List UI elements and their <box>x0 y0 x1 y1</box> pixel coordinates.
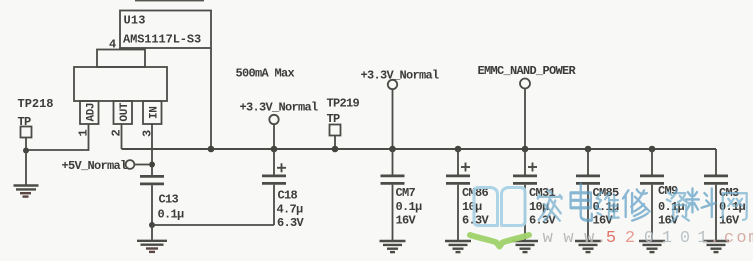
junction rail / CM7 <box>389 146 396 153</box>
wire pin3 IN down to +5V node <box>151 124 153 176</box>
U13 body <box>74 67 167 101</box>
junction rail / C18 / +3.3V <box>271 146 278 153</box>
wire C13 bottom to ground node <box>151 185 153 225</box>
svg-text:c: c <box>724 229 734 248</box>
ground under C13 <box>137 241 167 252</box>
watermark text (hand-drawn CJK strokes) <box>538 184 747 222</box>
capacitor CM9 <box>651 149 653 175</box>
watermark logo: open book <box>474 188 525 226</box>
EMMC_NAND_POWER terminal circle <box>520 79 530 89</box>
junction rail / U13 box edge <box>208 146 215 153</box>
junction rail / CM31 / EMMC <box>522 146 529 153</box>
ground under CM31 <box>512 241 538 252</box>
capacitor CM85 <box>587 149 589 175</box>
svg-text:4.7μ: 4.7μ <box>277 202 304 216</box>
svg-text:2: 2 <box>625 229 635 248</box>
wire CM9 to ground <box>651 185 653 240</box>
svg-text:5: 5 <box>606 229 616 248</box>
junction rail / CM86 <box>455 146 462 153</box>
wire node down to ground <box>25 151 27 185</box>
svg-text:0.1μ: 0.1μ <box>396 200 423 214</box>
+3.3V_Normal terminal circle (right) <box>388 80 397 89</box>
ground under CM7 <box>380 241 406 252</box>
wire TP218 pad to node <box>25 138 27 152</box>
svg-text:16V: 16V <box>658 213 679 227</box>
svg-text:U13: U13 <box>124 14 146 28</box>
capacitor CM31 (polarized) <box>524 149 526 175</box>
wire ground stem below C13 <box>151 225 153 240</box>
CM31 plus mark <box>528 163 537 172</box>
wire CM85 to ground <box>587 185 589 240</box>
junction rail / CM85 <box>585 146 592 153</box>
svg-text:16V: 16V <box>396 213 417 227</box>
svg-text:0: 0 <box>680 229 690 248</box>
capacitor CM7 <box>392 149 394 175</box>
wire +3.3V terminal down to rail <box>392 89 394 149</box>
svg-text:w: w <box>543 229 554 248</box>
svg-text:0.1μ: 0.1μ <box>158 208 185 222</box>
CM86 plus mark <box>461 163 470 172</box>
test point TP219 pad <box>330 125 341 136</box>
watermark url www.520101.com <box>543 229 753 248</box>
capacitor CM86 (polarized) <box>457 149 459 175</box>
svg-text:16V: 16V <box>593 213 614 227</box>
ground under CM9 <box>639 241 665 252</box>
junction TP218/ADJ/ground <box>23 148 29 154</box>
svg-text:0: 0 <box>644 229 654 248</box>
regulator U13 designator box <box>120 11 211 49</box>
+3.3V_Normal terminal circle (left) <box>269 115 278 124</box>
capacitor CM3 <box>704 176 728 184</box>
watermark logo: green swoosh <box>470 235 529 247</box>
junction rail / TP219 <box>332 146 339 153</box>
junction rail / CM9 <box>649 146 656 153</box>
svg-text:+3.3V_Normal: +3.3V_Normal <box>240 100 319 114</box>
test point TP218 pad <box>21 127 32 138</box>
svg-text:500mA Max: 500mA Max <box>236 67 295 81</box>
U13 pin box ADJ <box>80 101 99 124</box>
ground under CM86 <box>445 241 471 252</box>
+3.3V output rail <box>122 148 717 150</box>
wire CM3 to ground <box>715 185 717 240</box>
wire pin1 ADJ down and left to TP218 node <box>26 124 89 150</box>
wire U13 box right edge down to rail <box>210 48 212 149</box>
wire designator box to tab pin 4 <box>119 48 121 50</box>
ground under TP218 <box>14 186 39 197</box>
svg-text:o: o <box>736 229 746 248</box>
svg-text:EMMC_NAND_POWER: EMMC_NAND_POWER <box>478 64 577 78</box>
wire CM86 to ground <box>457 185 459 240</box>
capacitor C18 (polarized) <box>273 149 275 175</box>
wire CM7 to ground <box>392 185 394 240</box>
svg-text:TP219: TP219 <box>327 97 360 111</box>
svg-text:TP218: TP218 <box>18 97 54 111</box>
svg-text:w: w <box>584 229 595 248</box>
U13 tab (pin 4) <box>97 50 145 68</box>
ground under CM3 <box>703 241 729 252</box>
wire C13 bottom to C18 bottom <box>152 224 274 226</box>
wire +3.3V terminal to rail <box>273 124 275 149</box>
wire EMMC terminal down to rail <box>524 89 526 150</box>
wire +5V terminal to IN node <box>134 164 149 166</box>
svg-text:w: w <box>563 229 574 248</box>
wire C18 bottom to return wire <box>273 185 275 225</box>
wire pin2 OUT down to +3.3V rail <box>121 124 123 149</box>
svg-text:1: 1 <box>697 229 707 248</box>
svg-text:C18: C18 <box>278 189 298 203</box>
wire CM31 to ground <box>524 185 526 240</box>
svg-text:m: m <box>748 229 753 248</box>
svg-text:C13: C13 <box>159 193 179 207</box>
svg-text:6.3V: 6.3V <box>277 216 305 230</box>
svg-text:IN: IN <box>149 107 161 119</box>
svg-text:.: . <box>709 229 719 248</box>
junction +5V / IN / C13 <box>149 162 155 168</box>
U13 pin box IN <box>143 101 162 124</box>
wire rail end down to CM3 <box>715 149 717 175</box>
svg-text:1: 1 <box>662 229 672 248</box>
ground under CM85 <box>575 241 601 252</box>
U13 pin box OUT <box>114 101 133 124</box>
svg-text:CM7: CM7 <box>396 186 416 200</box>
svg-text:AMS1117L-S3: AMS1117L-S3 <box>123 33 201 47</box>
capacitor C13 <box>140 176 164 184</box>
svg-text:10μ: 10μ <box>462 200 482 214</box>
svg-text:ADJ: ADJ <box>86 103 98 122</box>
svg-text:+5V_Normal: +5V_Normal <box>62 159 128 173</box>
svg-text:OUT: OUT <box>119 102 131 121</box>
junction C13 bottom / C18 return <box>149 222 155 228</box>
C18 plus mark <box>277 163 286 172</box>
wire TP219 pad to rail <box>334 136 336 150</box>
svg-text:+3.3V_Normal: +3.3V_Normal <box>361 68 440 82</box>
+5V_Normal terminal circle <box>126 160 135 169</box>
